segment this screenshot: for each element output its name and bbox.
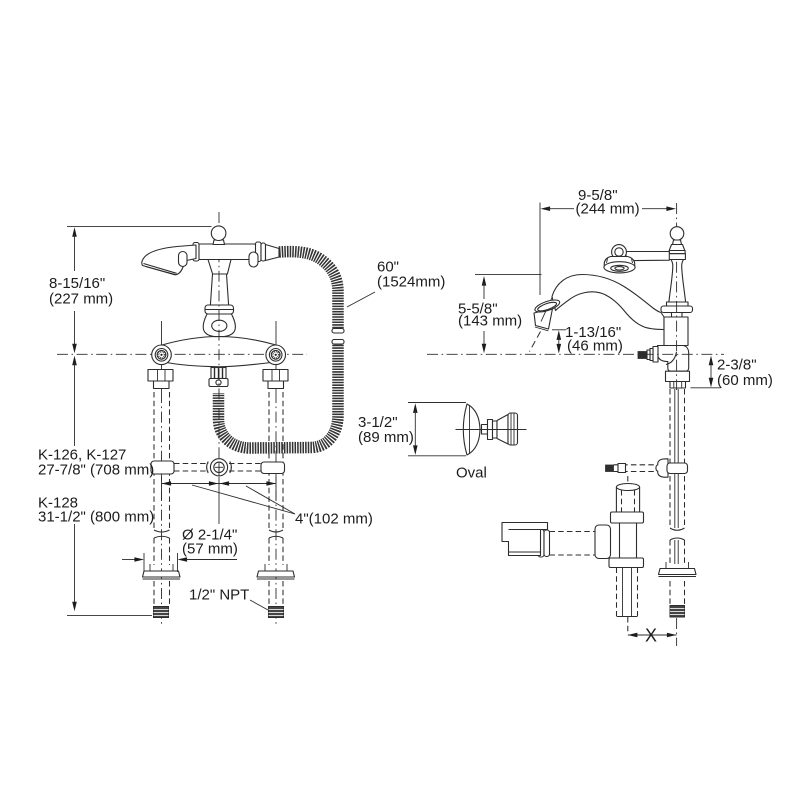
dimension K-126/K-128 vertical: [72, 356, 77, 612]
svg-text:(46 mm): (46 mm): [567, 338, 623, 355]
svg-text:X: X: [645, 626, 657, 646]
column: [210, 274, 228, 305]
svg-text:8-15/16": 8-15/16": [49, 275, 105, 292]
wheel centerline extensions: [161, 321, 163, 392]
handshower hose (ribbed): [219, 252, 345, 448]
column (right figure): [669, 260, 686, 303]
floor flange left: [143, 564, 181, 579]
supply pipe left (dashed): [154, 392, 170, 627]
svg-text:2-3/8": 2-3/8": [717, 357, 757, 374]
dimension 2-3/8 (60 mm): [691, 356, 721, 388]
centerline of right faucet: [676, 203, 678, 390]
svg-text:(57 mm): (57 mm): [182, 541, 238, 558]
valve on supply (right figure): [606, 459, 688, 477]
dimension X: [628, 633, 677, 638]
hose clip under cradle: [249, 252, 258, 267]
supply shank below (dashed): [670, 389, 685, 605]
threaded end right (1/2 NPT): [269, 607, 284, 618]
water stream dashes: [530, 332, 541, 352]
svg-text:(89 mm): (89 mm): [358, 429, 414, 446]
ball finial on cradle: [211, 226, 226, 245]
column collar: [205, 305, 234, 314]
floor flange right: [257, 564, 295, 579]
top extension line (top of faucet): [67, 225, 212, 227]
dimension 5-5/8 (143 mm): [475, 275, 542, 354]
svg-text:27-7/8" (708 mm): 27-7/8" (708 mm): [38, 462, 154, 479]
lever handle ball: [669, 227, 686, 260]
shank pieces below nut: [670, 382, 686, 389]
faucet body (left figure): [158, 337, 280, 367]
dimension 4" (102 mm) chain: [162, 477, 277, 500]
spout (S-curve): [552, 275, 664, 330]
dimension 1-13/16 (46 mm): [552, 330, 566, 354]
lever arm: [626, 252, 669, 261]
svg-text:Oval: Oval: [456, 465, 487, 482]
dimension dia 2-1/4 (57 mm): [122, 553, 237, 572]
lever knuckle ring: [612, 245, 627, 260]
handle wheel right: [266, 345, 286, 365]
shank nut: [666, 371, 690, 381]
mounting plane dash-dot (right): [427, 353, 724, 355]
bell inner opening: [212, 320, 227, 331]
union nut below left wheel: [148, 370, 173, 389]
svg-text:(227 mm): (227 mm): [49, 291, 113, 308]
svg-text:(60 mm): (60 mm): [717, 372, 773, 389]
svg-text:31-1/2" (800 mm): 31-1/2" (800 mm): [38, 509, 154, 526]
hose outlet stub with washers: [638, 347, 658, 363]
centerline below threads: [676, 618, 678, 646]
dimension 8-15/16 (227 mm) vertical: [72, 227, 77, 353]
mounting plane dash-dot line (left): [57, 353, 307, 355]
cross brace left cap: [151, 461, 174, 474]
handle wheel left: [152, 345, 172, 365]
dimension 3-1/2 (89 mm) for oval handle: [408, 403, 466, 456]
svg-text:4"(102 mm): 4"(102 mm): [295, 511, 373, 528]
union nut below right wheel: [263, 370, 288, 389]
svg-text:(1524mm): (1524mm): [377, 274, 445, 291]
hose gap caps: [332, 329, 344, 334]
centerline of left faucet: [218, 212, 220, 524]
column bell (escutcheon): [203, 314, 235, 337]
cross brace center fitting: [207, 459, 232, 476]
spout nozzle cone: [534, 298, 553, 331]
wall bracket: [502, 523, 548, 556]
column base ring: [667, 302, 689, 306]
cross brace (dashed): [174, 464, 261, 472]
rosette (escutcheon): [604, 257, 635, 273]
horizontal pipe to wall (dashed): [538, 530, 595, 558]
supply pipe right (dashed): [269, 392, 283, 625]
svg-text:(244 mm): (244 mm): [576, 201, 640, 218]
handshower wand: [142, 245, 196, 275]
column top flare under cradle: [208, 260, 231, 275]
cross brace right cap: [261, 462, 285, 474]
faucet body (right figure): [658, 317, 689, 371]
center hose outlet fitting: [209, 368, 228, 387]
neck under disc: [672, 313, 683, 318]
drop ell assembly: [595, 476, 644, 632]
flange (right figure): [659, 562, 697, 577]
threaded end left (1/2 NPT): [154, 607, 169, 618]
svg-text:1/2" NPT: 1/2" NPT: [189, 587, 249, 604]
cradle bar: [193, 242, 279, 262]
dimension 9-5/8 (244 mm): [540, 203, 676, 296]
leader lines for 4" label: [192, 485, 295, 514]
svg-text:(143 mm): (143 mm): [458, 313, 522, 330]
oval handle detail: [456, 404, 527, 455]
spout nozzle collar: [534, 298, 562, 315]
floor line: [67, 614, 152, 616]
column base disc: [661, 306, 693, 313]
threaded end (right figure): [670, 606, 685, 618]
